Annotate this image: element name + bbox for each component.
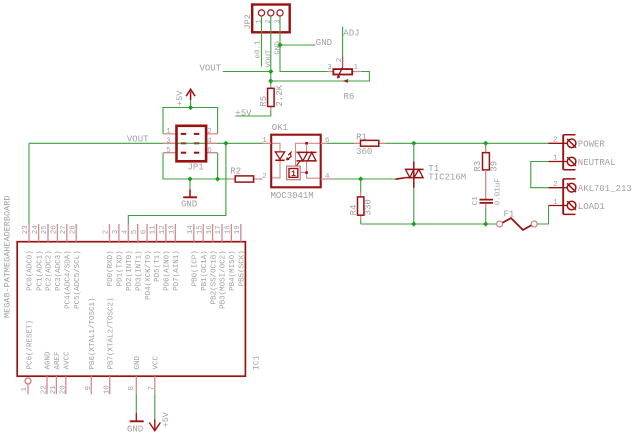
svg-text:+5V: +5V: [161, 411, 171, 427]
svg-text:PD5(T1): PD5(T1): [154, 250, 162, 282]
svg-text:VOUT: VOUT: [127, 134, 149, 144]
svg-text:JP2: JP2: [243, 14, 253, 29]
pin stub OK1 pin6: [321, 142, 327, 144]
svg-text:GND: GND: [316, 38, 332, 48]
capacitor C1 0.01uF: [472, 170, 503, 224]
wire JP2 pin1 net e0.1: [255, 16, 263, 66]
svg-text:VOUT: VOUT: [200, 63, 222, 73]
svg-text:NEUTRAL: NEUTRAL: [578, 158, 616, 168]
svg-text:12: 12: [159, 225, 167, 234]
svg-text:17: 17: [215, 225, 223, 234]
wire ADJ net: [343, 27, 360, 57]
svg-text:6: 6: [325, 137, 330, 145]
svg-text:PC4(ADC4/SDA): PC4(ADC4/SDA): [65, 250, 73, 309]
op-isolator OK1 MOC3041M: [262, 123, 330, 201]
svg-text:14: 14: [187, 225, 195, 235]
svg-text:R6: R6: [344, 92, 355, 102]
svg-text:3: 3: [166, 137, 171, 145]
svg-text:7: 7: [148, 386, 156, 391]
svg-text:2.2K: 2.2K: [275, 84, 285, 106]
svg-text:26: 26: [51, 225, 59, 235]
svg-text:1: 1: [553, 199, 558, 207]
svg-text:PD7(AIN1): PD7(AIN1): [173, 250, 181, 291]
pin stubs IC1 top row: [29, 224, 241, 242]
svg-text:1: 1: [166, 128, 171, 136]
svg-text:+5V: +5V: [175, 90, 185, 106]
svg-text:1: 1: [21, 387, 29, 392]
wire GND label stub top right: [280, 38, 332, 48]
svg-text:23: 23: [22, 225, 30, 235]
resistor R3 39: [473, 143, 500, 171]
svg-text:PB0(ICP): PB0(ICP): [192, 250, 200, 286]
svg-text:2: 2: [207, 128, 212, 136]
svg-text:PC6(/RESET): PC6(/RESET): [27, 320, 35, 370]
svg-text:10: 10: [103, 385, 111, 395]
svg-text:1: 1: [256, 19, 264, 24]
svg-text:GND: GND: [134, 355, 142, 369]
svg-text:R4: R4: [349, 205, 359, 216]
svg-text:R5: R5: [259, 96, 269, 107]
wire bottom rail: [361, 223, 497, 225]
node junction C1 bottom: [483, 221, 488, 226]
potentiometer R6: [327, 56, 361, 102]
svg-text:PC5(ADC5/SCL): PC5(ADC5/SCL): [74, 250, 82, 309]
svg-text:1: 1: [553, 155, 558, 163]
supply +5V arrow above JP1: [175, 89, 195, 107]
wire T1 branch vertical: [413, 143, 415, 224]
svg-text:22: 22: [41, 385, 49, 394]
wire fuse to LOAD1: [537, 206, 548, 225]
svg-text:PD0(RXD): PD0(RXD): [107, 250, 115, 286]
svg-text:360: 360: [356, 147, 372, 157]
svg-text:9: 9: [85, 386, 93, 391]
pin stub AKL701 pin2: [548, 187, 567, 189]
svg-text:15: 15: [196, 225, 204, 235]
svg-text:25: 25: [41, 225, 49, 235]
pin stubs IC1 bottom row: [47, 376, 155, 394]
svg-text:19: 19: [234, 225, 242, 234]
connector X1 POWER/NEUTRAL: [553, 135, 616, 170]
ground GND symbol below JP1: [181, 189, 197, 209]
svg-text:1: 1: [291, 169, 296, 179]
svg-text:0.01uF: 0.01uF: [495, 178, 503, 205]
IC U IC1 MEGA8-P box: [3, 196, 262, 377]
svg-text:28: 28: [69, 225, 77, 234]
svg-text:4: 4: [207, 137, 212, 145]
svg-text:4: 4: [325, 173, 330, 181]
node R5 top junction: [268, 78, 273, 83]
wire net to IC1 pin 4 PD2: [128, 143, 226, 224]
svg-text:LOAD1: LOAD1: [578, 202, 605, 212]
svg-text:PD6(AIN0): PD6(AIN0): [164, 250, 172, 291]
resistor R5 2.2K: [235, 84, 285, 116]
svg-text:AVCC: AVCC: [64, 351, 72, 370]
node junction R3 top: [483, 141, 488, 146]
svg-text:4: 4: [122, 229, 130, 234]
svg-text:R1: R1: [356, 132, 367, 142]
svg-text:PC3(ADC3): PC3(ADC3): [55, 250, 63, 291]
svg-text:VOUT: VOUT: [265, 49, 273, 68]
wire net VOUT horizontal to JP1/OK1: [29, 134, 263, 144]
svg-text:ADJ: ADJ: [343, 29, 359, 39]
wire R6 wiper return loop: [271, 72, 370, 82]
connector X2 AKL701_213/LOAD1: [553, 179, 632, 215]
svg-text:1: 1: [262, 137, 267, 145]
svg-text:16: 16: [206, 225, 214, 235]
svg-text:1: 1: [354, 64, 359, 72]
wire net VOUT vertical to IC1 pin 23: [28, 143, 30, 224]
connector JP2: [243, 5, 290, 33]
wire OK1 pin6 to R1: [327, 142, 354, 144]
svg-text:5: 5: [131, 229, 139, 234]
svg-text:GND: GND: [274, 41, 282, 55]
svg-text:3: 3: [274, 19, 282, 24]
pin names IC1 bottom row: [27, 297, 161, 369]
svg-text:6: 6: [207, 147, 212, 155]
svg-text:AREF: AREF: [54, 351, 62, 369]
svg-text:F1: F1: [504, 210, 515, 220]
resistor R2: [230, 167, 263, 183]
svg-text:PD1(TXD): PD1(TXD): [117, 250, 125, 286]
svg-text:PB1(OC1A): PB1(OC1A): [201, 250, 209, 291]
node +5V rail junction: [188, 105, 193, 110]
svg-text:PB6(XTAL1/TOSC1): PB6(XTAL1/TOSC1): [89, 297, 97, 369]
svg-text:39: 39: [490, 161, 500, 172]
ground GND symbol IC1 pin 8: [127, 394, 144, 434]
wire net VOUT label segment: [200, 63, 271, 73]
svg-text:MEGA8-PATMEGAHEADERBOARD: MEGA8-PATMEGAHEADERBOARD: [3, 196, 13, 318]
pin numbers IC1 bottom row: [41, 385, 157, 395]
svg-text:PB2(SS/OC1B): PB2(SS/OC1B): [210, 250, 218, 304]
svg-text:PD4(XCK/T0): PD4(XCK/T0): [145, 250, 153, 300]
svg-text:PB7(XTAL2/TOSC2): PB7(XTAL2/TOSC2): [108, 297, 116, 369]
svg-text:2: 2: [262, 173, 267, 181]
svg-text:AGND: AGND: [45, 351, 53, 370]
svg-text:11: 11: [150, 225, 158, 235]
svg-text:PD2(INT0): PD2(INT0): [126, 250, 134, 291]
resistor R1 360: [354, 132, 385, 157]
wire NEUTRAL to AKL701 link: [531, 162, 549, 188]
svg-text:6: 6: [140, 229, 148, 234]
wire JP2 pin2 net VOUT down: [265, 16, 273, 84]
pin stub OK1 pin4: [321, 178, 334, 180]
connector JP1: [163, 126, 218, 173]
svg-text:20: 20: [59, 385, 67, 395]
wire +5V rail above JP1: [163, 108, 218, 134]
svg-text:27: 27: [60, 225, 68, 234]
svg-text:PB3(MOSI/OC2): PB3(MOSI/OC2): [220, 250, 228, 309]
svg-text:MOC3041M: MOC3041M: [271, 191, 314, 201]
svg-text:18: 18: [225, 225, 233, 234]
svg-text:3: 3: [327, 64, 332, 72]
pin stub OK1 pin1: [263, 142, 272, 144]
svg-text:GND: GND: [127, 424, 143, 434]
svg-text:2: 2: [336, 58, 344, 63]
svg-text:PC1(ADC1): PC1(ADC1): [36, 250, 44, 291]
fuse F1: [497, 210, 538, 230]
svg-text:2: 2: [265, 19, 273, 24]
svg-text:PC2(ADC2): PC2(ADC2): [46, 250, 54, 291]
node junction JP1 pin4 / OK1 pin1: [223, 141, 228, 146]
svg-text:TIC216M: TIC216M: [428, 173, 466, 183]
svg-text:AKL701_213: AKL701_213: [578, 184, 632, 194]
pin 1 stub with reset circle: [21, 378, 31, 394]
svg-text:330: 330: [364, 199, 374, 215]
svg-text:PC0(ADC0): PC0(ADC0): [27, 250, 35, 291]
svg-text:VCC: VCC: [153, 355, 161, 369]
node junction R4 top: [358, 176, 363, 181]
svg-text:2: 2: [103, 230, 111, 235]
wire R1 to POWER terminal rail: [385, 142, 548, 144]
svg-text:PB4(MISO): PB4(MISO): [229, 250, 237, 291]
svg-text:PB5(SCK): PB5(SCK): [239, 250, 247, 286]
svg-text:JP1: JP1: [188, 163, 204, 173]
svg-text:e0.1: e0.1: [255, 40, 263, 59]
svg-text:C1: C1: [472, 196, 480, 206]
node junction T1 bottom: [411, 221, 416, 226]
svg-text:POWER: POWER: [578, 140, 606, 150]
svg-text:24: 24: [32, 225, 40, 235]
triac T1 TIC216M: [396, 161, 467, 187]
pin stub LOAD1: [549, 205, 568, 207]
svg-text:8: 8: [128, 386, 136, 391]
svg-text:IC1: IC1: [252, 355, 261, 370]
wire GND rail below JP1: [163, 153, 230, 190]
svg-text:PD3(INT1): PD3(INT1): [135, 250, 143, 291]
svg-text:OK1: OK1: [272, 123, 288, 133]
pin numbers IC1 top row: [22, 225, 242, 235]
svg-text:+5V: +5V: [235, 108, 252, 118]
node junction T1 top: [411, 141, 416, 146]
wire OK1 pin4 gate net: [334, 178, 396, 180]
node JP2 pin3 junction: [277, 42, 282, 47]
node VOUT junction: [268, 69, 273, 74]
pin names IC1 top row: [27, 250, 247, 309]
pin stub NEUTRAL: [548, 161, 567, 163]
resistor R4 330: [349, 179, 374, 224]
svg-text:GND: GND: [181, 200, 197, 210]
pin stub POWER: [549, 142, 568, 144]
svg-text:3: 3: [112, 229, 120, 234]
supply +5V arrow IC1 pin 7: [149, 394, 171, 431]
svg-text:2: 2: [553, 181, 558, 189]
svg-text:5: 5: [166, 147, 171, 155]
svg-text:R3: R3: [473, 161, 483, 172]
wire JP2 pin3 net GND down: [274, 16, 327, 71]
svg-text:13: 13: [169, 225, 177, 235]
svg-text:R2: R2: [230, 167, 241, 177]
node GND rail junctions: [187, 176, 220, 181]
svg-text:2: 2: [553, 136, 558, 144]
svg-text:21: 21: [50, 385, 58, 395]
